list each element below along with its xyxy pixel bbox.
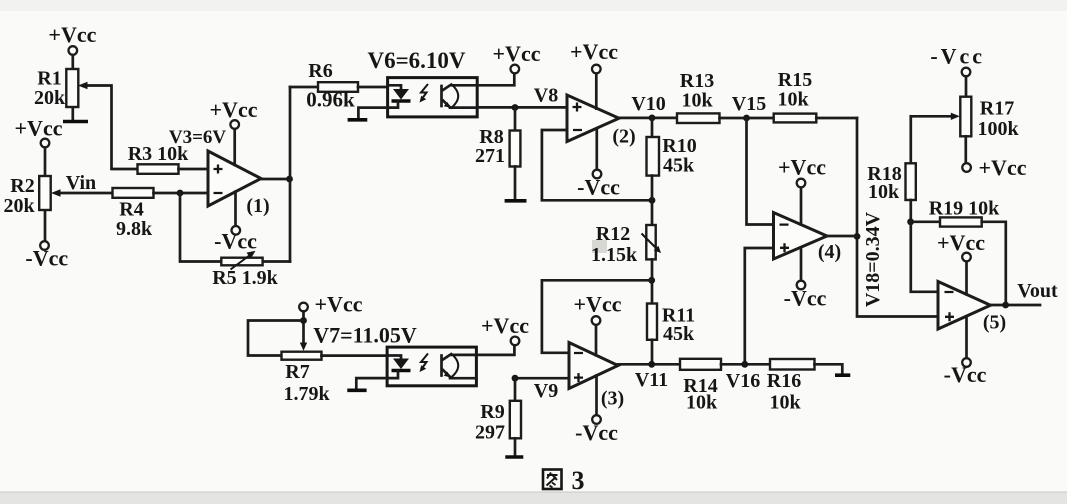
svg-text:+Vcc: +Vcc [778, 155, 826, 180]
svg-text:1.15k: 1.15k [591, 244, 638, 266]
svg-text:-Vcc: -Vcc [930, 44, 985, 69]
svg-text:+Vcc: +Vcc [979, 155, 1027, 180]
svg-text:271: 271 [475, 145, 505, 167]
svg-text:Vout: Vout [1017, 280, 1058, 302]
svg-text:45k: 45k [663, 323, 695, 345]
svg-text:+Vcc: +Vcc [315, 292, 363, 317]
svg-text:10k: 10k [777, 89, 809, 111]
svg-text:R6: R6 [308, 60, 332, 82]
svg-text:+Vcc: +Vcc [574, 292, 622, 317]
svg-text:-Vcc: -Vcc [575, 420, 618, 445]
svg-text:(4): (4) [818, 241, 841, 263]
svg-text:V16: V16 [726, 370, 760, 392]
svg-text:100k: 100k [977, 118, 1019, 140]
svg-text:-Vcc: -Vcc [25, 246, 68, 271]
svg-text:V6=6.10V: V6=6.10V [367, 48, 465, 73]
svg-text:R7: R7 [285, 361, 309, 383]
svg-text:-Vcc: -Vcc [784, 286, 827, 311]
svg-text:+Vcc: +Vcc [481, 313, 529, 338]
svg-text:45k: 45k [663, 155, 695, 177]
svg-text:3: 3 [572, 466, 585, 495]
svg-text:-Vcc: -Vcc [214, 229, 257, 254]
svg-text:V15: V15 [732, 93, 766, 115]
svg-text:-Vcc: -Vcc [577, 175, 620, 200]
svg-text:V11: V11 [635, 369, 668, 391]
svg-text:V3=6V: V3=6V [169, 127, 227, 148]
svg-text:R19 10k: R19 10k [929, 198, 1000, 220]
svg-text:(5): (5) [983, 312, 1006, 334]
svg-text:(1): (1) [246, 195, 269, 217]
svg-text:+Vcc: +Vcc [15, 116, 63, 141]
svg-text:V9: V9 [534, 380, 558, 402]
svg-text:10k: 10k [868, 181, 900, 203]
svg-text:V10: V10 [631, 93, 665, 115]
svg-text:R17: R17 [980, 98, 1014, 120]
svg-text:20k: 20k [34, 87, 66, 109]
svg-text:+Vcc: +Vcc [493, 41, 541, 66]
svg-text:V7=11.05V: V7=11.05V [313, 323, 417, 348]
svg-text:(2): (2) [612, 126, 635, 148]
svg-text:R16: R16 [767, 370, 801, 392]
svg-text:9.8k: 9.8k [116, 218, 153, 240]
svg-text:+Vcc: +Vcc [210, 97, 258, 122]
svg-text:+Vcc: +Vcc [937, 230, 985, 255]
svg-text:297: 297 [475, 422, 505, 444]
svg-text:10k: 10k [686, 392, 718, 414]
svg-text:10k: 10k [681, 90, 713, 112]
svg-text:V8: V8 [534, 85, 558, 107]
svg-text:R2: R2 [10, 175, 34, 197]
svg-text:Vin: Vin [66, 172, 96, 194]
svg-text:R9: R9 [480, 401, 504, 423]
svg-text:V18=0.34V: V18=0.34V [862, 211, 884, 307]
svg-text:(3): (3) [601, 388, 624, 410]
svg-text:1.79k: 1.79k [283, 383, 330, 405]
svg-text:+Vcc: +Vcc [48, 22, 96, 47]
svg-text:R5 1.9k: R5 1.9k [212, 267, 278, 289]
svg-text:-Vcc: -Vcc [944, 362, 987, 387]
svg-text:10k: 10k [769, 392, 801, 414]
svg-text:20k: 20k [3, 195, 35, 217]
svg-text:0.96k: 0.96k [306, 88, 355, 112]
svg-text:+Vcc: +Vcc [570, 39, 618, 64]
